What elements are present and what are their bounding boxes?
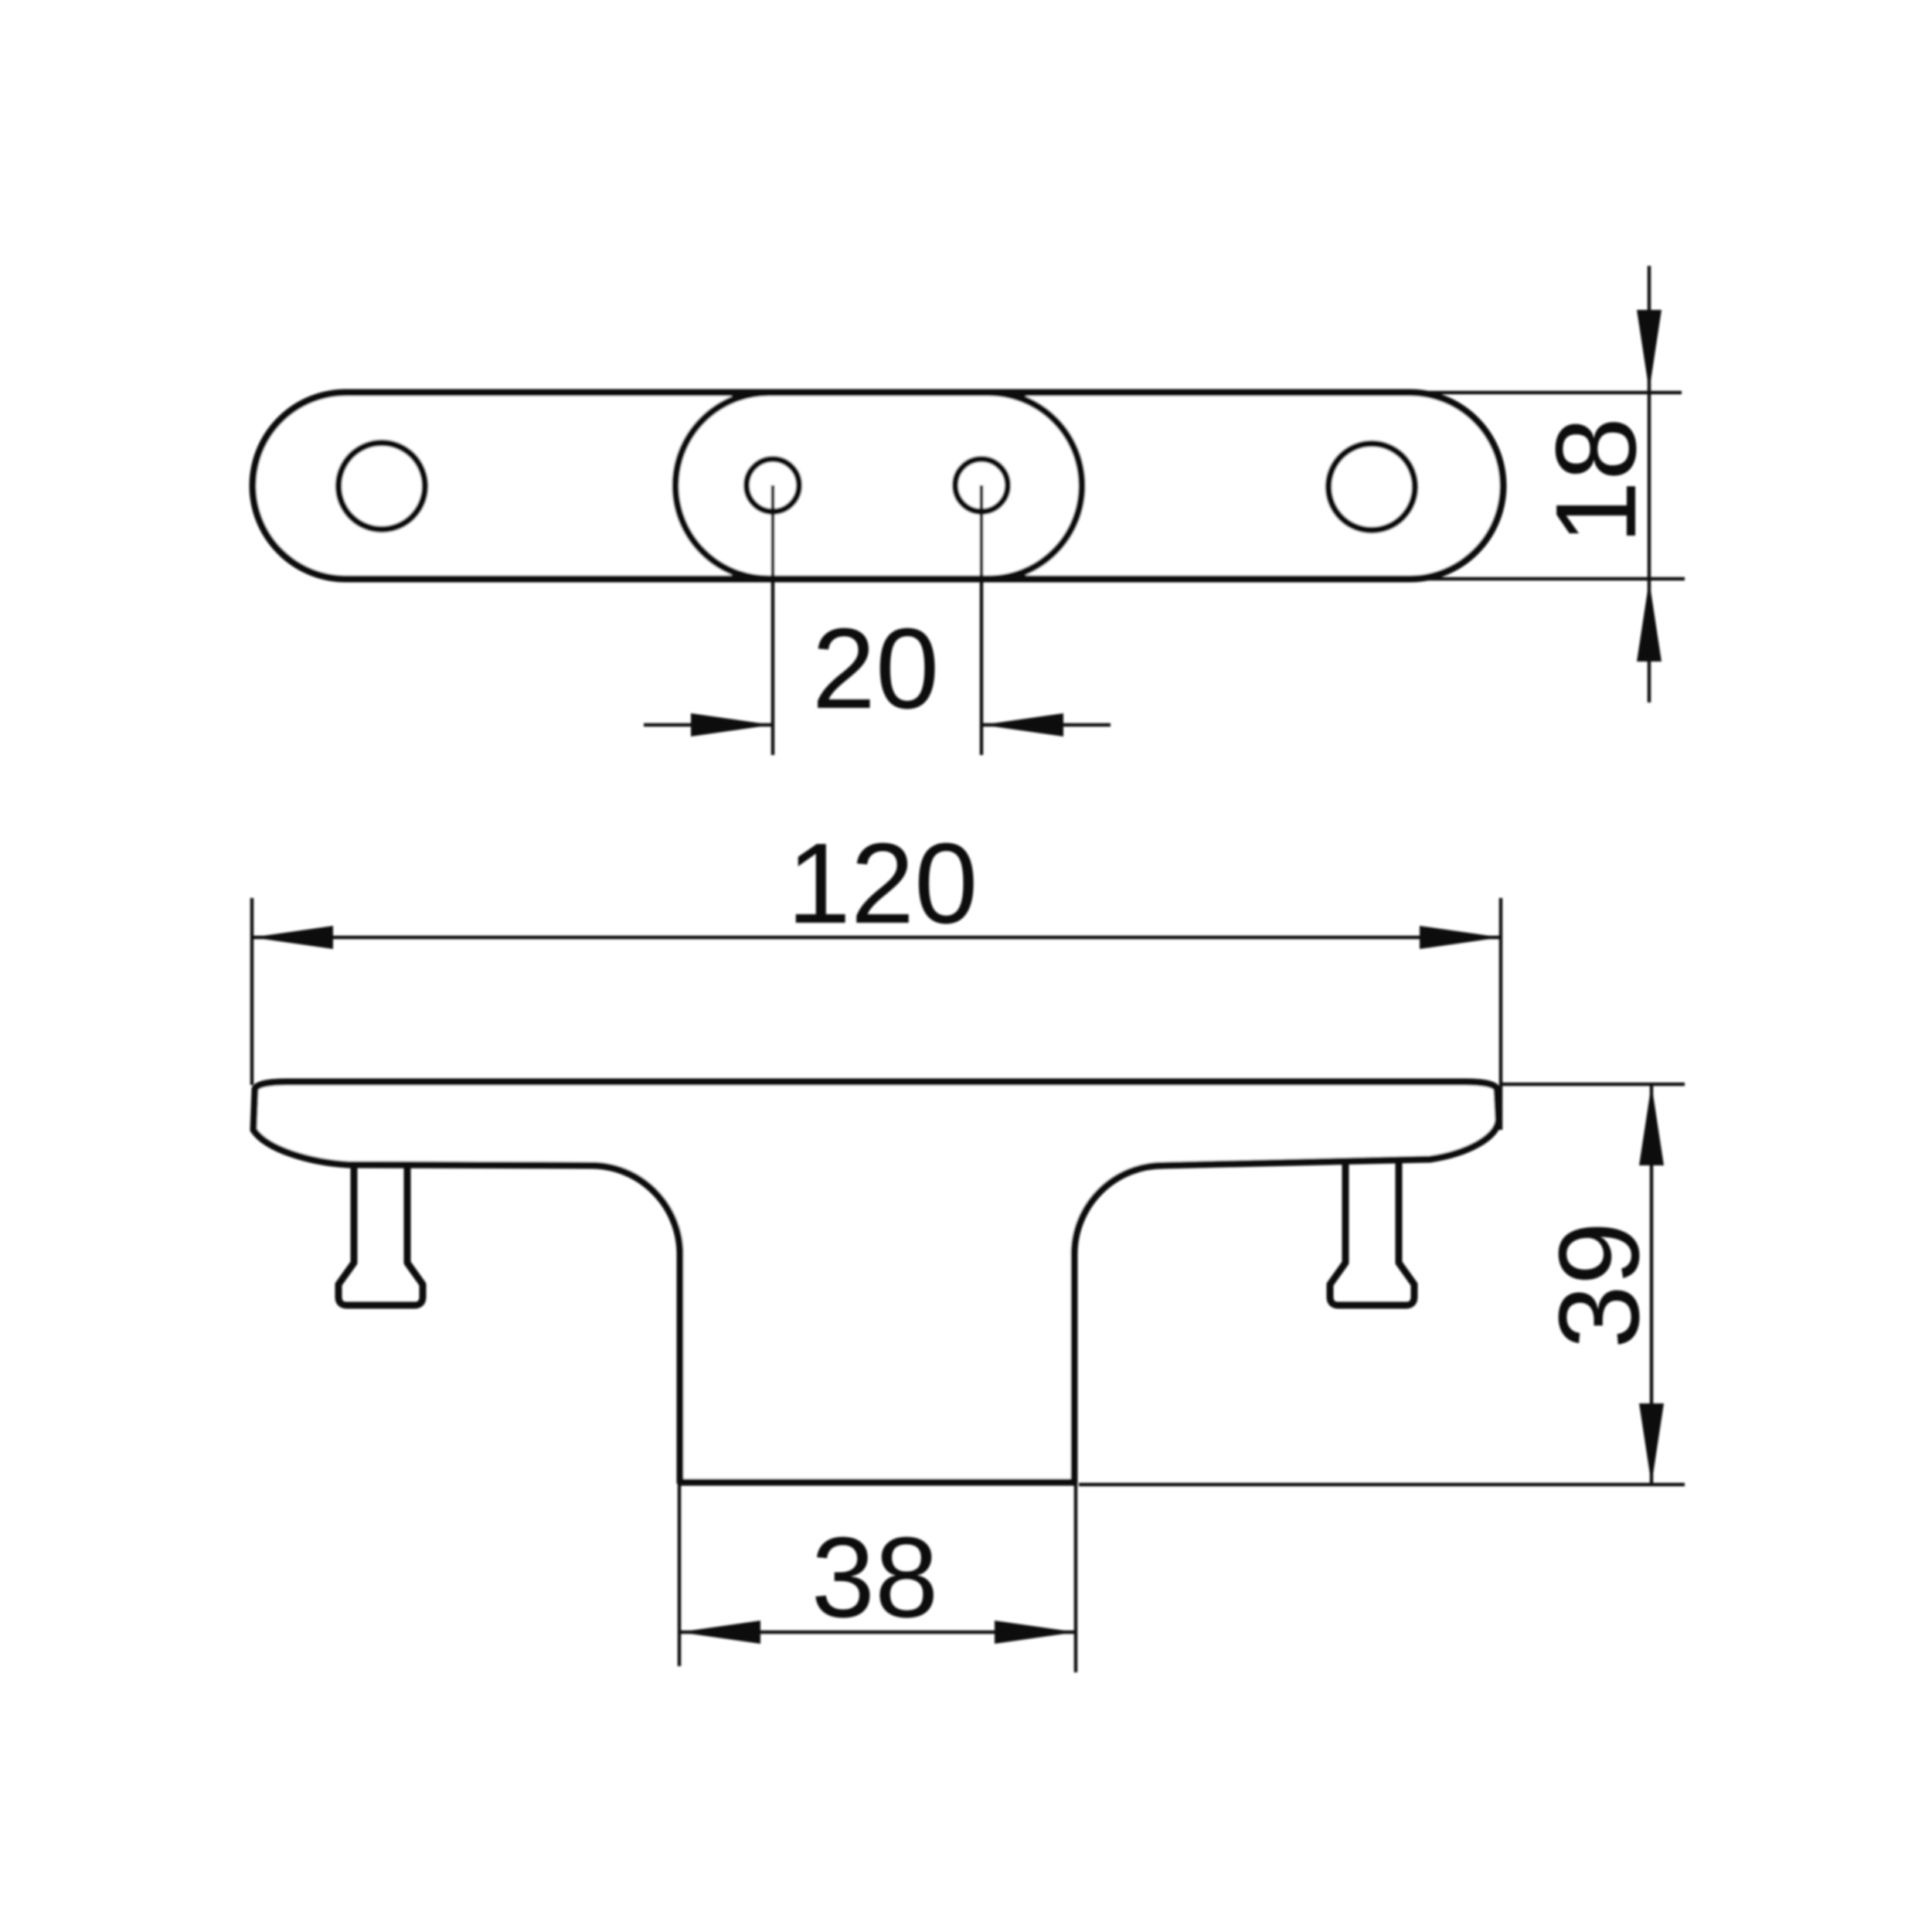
svg-text:38: 38 bbox=[811, 1514, 939, 1641]
svg-text:20: 20 bbox=[812, 605, 940, 733]
dimension line (120 dim) bbox=[252, 936, 1501, 939]
svg-text:18: 18 bbox=[1532, 417, 1660, 545]
outer body stadium (top view) bbox=[253, 393, 1503, 579]
arrowhead (38 dim, left) bbox=[679, 1621, 760, 1644]
arrowhead (20 dim, left) bbox=[691, 713, 772, 736]
dimension line (39 dim) bbox=[1650, 1084, 1653, 1485]
arrowhead (39 dim, bottom) bbox=[1639, 1403, 1664, 1485]
arrowhead (120 dim, left) bbox=[252, 926, 333, 949]
arrowhead (20 dim, right) bbox=[982, 713, 1063, 736]
extension line (18 dim, lower, from body bottom edge) bbox=[1383, 577, 1685, 580]
central boss stadium (top view) bbox=[675, 393, 1082, 579]
extension line (39 dim, bottom, from base bottom) bbox=[1079, 1483, 1685, 1486]
svg-text:39: 39 bbox=[1536, 1222, 1663, 1349]
dimension line (38 dim) bbox=[679, 1631, 1076, 1634]
right small hole (top view) bbox=[955, 459, 1008, 512]
extension line (18 dim, upper, from body top edge) bbox=[1383, 391, 1682, 394]
right screw hole (top view) bbox=[1328, 444, 1415, 530]
extension line (38 dim, right, from pedestal right wall) bbox=[1074, 1482, 1077, 1672]
left screw hole (top view) bbox=[338, 443, 425, 529]
extension line (20 dim, right, from right small hole) bbox=[980, 485, 983, 755]
extension line (39 dim, top, from bar top) bbox=[1499, 1083, 1685, 1086]
arrowhead (18 dim, top) bbox=[1637, 310, 1662, 391]
dimension line tail (20 dim, left) bbox=[644, 723, 772, 726]
extension line (120 dim, right) bbox=[1499, 898, 1502, 1130]
right stud pin (front view) bbox=[1330, 1151, 1414, 1305]
extension line (38 dim, left, from pedestal left wall) bbox=[678, 1482, 681, 1666]
extension line (120 dim, left) bbox=[250, 898, 253, 1085]
handle body outline (front view) bbox=[253, 1082, 1498, 1482]
dimension line tail (20 dim, right) bbox=[982, 723, 1111, 726]
arrowhead (18 dim, bottom) bbox=[1637, 580, 1662, 662]
svg-text:120: 120 bbox=[787, 820, 978, 947]
extension line (20 dim, left, from left small hole) bbox=[771, 485, 774, 755]
left stud pin (front view) bbox=[338, 1151, 423, 1305]
left small hole (top view) bbox=[747, 459, 799, 512]
arrowhead (38 dim, right) bbox=[995, 1621, 1076, 1644]
arrowhead (39 dim, top) bbox=[1639, 1084, 1664, 1165]
dimension line (18 dim) bbox=[1648, 266, 1651, 702]
arrowhead (120 dim, right) bbox=[1420, 926, 1501, 949]
